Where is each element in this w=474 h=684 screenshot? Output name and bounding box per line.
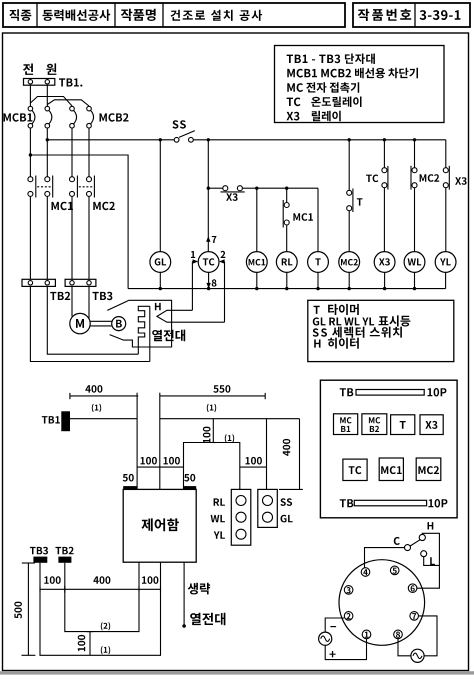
device MC1 (panel) [379, 458, 403, 481]
motor M [70, 313, 90, 333]
wire riser 1 (TB1 to control box) [136, 393, 138, 490]
wire probe to TC pin1 [191, 251, 198, 310]
wire heater terminal 1 to TB2 [47, 286, 138, 354]
dimension 100 (vertical, inner) [203, 419, 234, 443]
wire control bus L2 (neutral) [30, 155, 128, 289]
wire MCB1 pole2 down [46, 128, 49, 177]
device TC (panel) [343, 459, 367, 480]
socket pin 6 [408, 584, 417, 593]
wire YL to bottom bus [445, 272, 447, 288]
thermocouple probe [157, 310, 225, 322]
coil/lamp MC1 [246, 252, 267, 273]
AC source left [319, 626, 337, 657]
device MCB2 (panel) [362, 414, 387, 435]
legend box (component list) [275, 46, 445, 123]
wire inner run [184, 443, 240, 490]
wire MC2 pole1 to TB3 [71, 196, 73, 279]
device X3 (panel) [420, 415, 443, 435]
socket pin 7 [410, 612, 419, 621]
wire TC pin8 to bus [206, 272, 216, 288]
wire corner to SS/GL box [266, 419, 268, 490]
coil/lamp TC [198, 252, 219, 273]
dimension 100 (lamp box) [240, 457, 267, 467]
terminal TB2 (layout) [56, 547, 74, 563]
title block left [3, 3, 345, 27]
wire MCB2 pole1 down [71, 128, 73, 177]
wire 550 run [160, 418, 300, 420]
wire TB3 run (1) [40, 562, 161, 655]
wire TB1 to MCB1 pole1 [29, 85, 31, 106]
dimension 400 (top) [70, 385, 138, 412]
wire MC2 to bottom bus [348, 272, 350, 288]
wire MC1 pole1 to TB2 [29, 196, 31, 279]
wire X3 to bottom bus [384, 272, 386, 288]
wire source to pin8 [398, 639, 411, 656]
wire RL to bottom bus [286, 272, 288, 288]
socket pin 2 [344, 612, 353, 621]
wire MC2 pole2 to TB3 [88, 196, 90, 279]
contact MC2 aux (NO) [411, 140, 439, 252]
coil/lamp RL [276, 252, 297, 273]
dimension row 100 400 100 [40, 576, 161, 592]
wire GL to bottom bus [159, 272, 161, 288]
selector blade C-H [410, 540, 420, 546]
dimension 500 [14, 563, 35, 655]
breaker MCB2 [70, 106, 129, 128]
blower B [112, 317, 126, 331]
terminal bar TB 10P bottom [340, 499, 448, 508]
wire probe to TC pin2 [219, 251, 225, 322]
terminal block TB2 [22, 279, 70, 300]
wire control bus after SS [193, 138, 445, 141]
socket pin 4 [361, 568, 370, 577]
dimension 50 right [184, 474, 197, 488]
device MC2 (panel) [416, 458, 441, 481]
wire bus to lamp GL [159, 140, 161, 252]
wire X3-row to coil MC1 [256, 188, 258, 251]
legend box 2 [308, 300, 454, 361]
coil/lamp GL [150, 252, 171, 273]
relay contact X3 (NO) [208, 186, 318, 201]
wire source to pin2 [325, 618, 344, 632]
node 전원 (power source label) [23, 63, 56, 75]
dimension 400 (vertical right) [279, 419, 303, 490]
wire MC1 to bottom bus [256, 272, 258, 288]
wire MC1 pole2 to TB2 [46, 196, 48, 279]
contact T (timer, NO) [347, 140, 363, 252]
wire bottom control bus [128, 287, 446, 290]
dimension 50 left [123, 474, 137, 488]
coil/lamp YL [435, 252, 456, 273]
selector common C [394, 537, 411, 551]
lamp box RL WL YL [211, 489, 251, 545]
contactor MC1 main contacts [28, 176, 73, 211]
wire WL to bottom bus [414, 272, 416, 288]
wire L stub [424, 557, 440, 566]
socket pin 1 [362, 630, 371, 639]
wire MCB2 pole2 down [88, 128, 90, 177]
coil/lamp MC2 [339, 252, 360, 273]
coil/lamp WL [404, 252, 425, 273]
wire feed to MCB2 pole2 [47, 100, 89, 106]
coil/lamp X3 [374, 252, 395, 273]
wire MCB1 pole1 down [29, 128, 32, 177]
device MCB1 (panel) [334, 414, 358, 435]
wire heater terminal 2 to TB2 [30, 286, 149, 361]
socket pin 3 [344, 586, 353, 595]
selector switch SS [173, 120, 195, 142]
wire control bus L1 [47, 138, 174, 141]
scan shadow bottom edge [0, 671, 474, 674]
wire thermocouple stub [182, 562, 186, 628]
contact X3 aux (NO) [443, 140, 466, 252]
wire feed to MCB2 pole1 [30, 97, 72, 106]
wire H to pin6 [417, 533, 439, 588]
wire X3-row to coil T [317, 188, 319, 251]
socket pin 8 [394, 630, 403, 639]
contact MC1 aux (NO) [283, 188, 313, 251]
panel box [320, 380, 457, 518]
wire TB1 to MCB1 pole2 [46, 85, 48, 106]
wire source to pin1 [325, 639, 366, 660]
socket pin 5 [390, 566, 399, 575]
wire T to bottom bus [317, 272, 319, 288]
label 열전대 (thermocouple) [152, 330, 185, 342]
terminal TB1 (layout) [42, 411, 70, 431]
heater element H (meander) [138, 303, 160, 362]
terminal bar TB 10P top [340, 388, 447, 397]
title block right [353, 3, 470, 27]
wire C to pin4 [365, 548, 405, 568]
wire riser 2 [159, 393, 161, 490]
contactor MC2 main contacts [70, 176, 115, 211]
control box 제어함 [123, 489, 196, 562]
coil/lamp T [308, 252, 329, 273]
terminal block TB3 [65, 279, 112, 300]
wire TB3 to motor M [72, 286, 89, 318]
contact TC (temp relay, NO) [366, 140, 388, 252]
wire bus to X3-row / TC pin7 [206, 140, 216, 252]
dimension 550 (top) [160, 385, 265, 412]
wire TB1 run [70, 418, 137, 420]
terminal TB3 (layout) [30, 547, 48, 563]
label 생략 [188, 583, 210, 595]
socket outline [339, 560, 425, 646]
wire source to pin7 [419, 616, 437, 656]
AC source bottom [411, 649, 424, 662]
selector contact H [419, 522, 433, 541]
breaker MCB1 [4, 106, 52, 128]
wire TB2 run (2) [65, 562, 139, 631]
device T (panel) [391, 415, 415, 435]
selector contact L [421, 551, 435, 565]
furnace enclosure outline [107, 300, 171, 347]
label 열전대 (bottom) [190, 613, 225, 625]
dimension 100 (between runs) [78, 632, 94, 656]
shaft coupling M-B [90, 321, 112, 326]
terminal block TB1 [24, 78, 83, 86]
dimension 100 100 (box top) [137, 457, 183, 467]
switch box SS GL [258, 489, 293, 527]
